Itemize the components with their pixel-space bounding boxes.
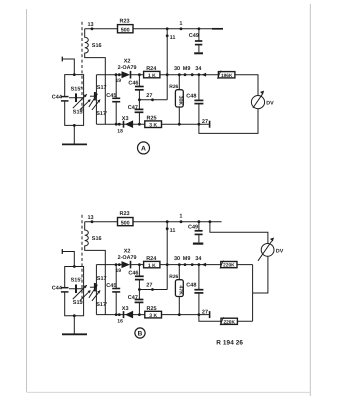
page border right [309,4,311,396]
svg-text:S17': S17' [96,302,108,308]
svg-text:DV: DV [266,100,274,106]
svg-text:X2: X2 [124,249,131,255]
svg-text:S15': S15' [71,87,83,93]
svg-text:S15: S15 [73,110,83,116]
svg-text:M9: M9 [183,66,191,72]
svg-text:C44: C44 [52,95,63,101]
resistor R26 (B) [178,265,180,315]
resistor R24 (B) [144,261,160,267]
capacitor C48 (A) [198,73,201,76]
variable capacitor S15/S15' (A) [69,97,84,99]
diode X2 2-OA79 (B) [122,261,131,268]
wire: detector rail (B) [96,264,252,266]
resistor R23 (B) [118,218,134,226]
wire: detector rail (A) [96,74,258,76]
svg-text:S17: S17 [97,276,107,282]
inductor S16 (A) [85,29,106,124]
svg-text:R25: R25 [147,306,157,312]
resistor R26 (A) [178,75,180,125]
svg-text:1 K: 1 K [148,73,156,79]
capacitor C45 (B) [115,265,117,315]
svg-text:C49: C49 [188,224,198,230]
node dots bottom rail (A) [115,123,118,126]
svg-text:C48: C48 [186,93,196,99]
svg-text:A: A [141,146,146,153]
page border left [26,9,28,392]
node: stub junction dot (A) [73,73,76,76]
svg-text:R26: R26 [169,84,178,90]
capacitor C49 (A) [198,27,201,30]
resistor 220K lower (B) [221,318,237,324]
wire: meter bottom jog (B) [253,256,268,293]
variable capacitor S17/S17' (A) [90,95,94,97]
svg-text:R24: R24 [146,256,157,262]
variable capacitor S15/S15' (B) [69,288,84,290]
svg-text:30: 30 [174,66,180,72]
dashed gang-coupling line (A) [81,22,83,112]
svg-text:34: 34 [195,66,202,72]
svg-text:R 194 26: R 194 26 [216,339,243,346]
variable capacitor S17/S17' (B) [90,286,94,288]
svg-text:27: 27 [146,93,152,99]
capacitor C44 (A) [61,96,69,98]
svg-text:S17': S17' [96,111,108,117]
ground (tank B) [73,314,76,317]
svg-text:S16: S16 [92,236,102,242]
svg-text:13: 13 [88,22,94,28]
capacitor C45 (A) [115,75,117,125]
node 19 dots (A) [115,73,118,76]
wire: node 27 link line (A) [139,99,167,101]
wire: top rail A [85,28,223,30]
svg-text:30K: 30K [177,96,183,106]
svg-text:196K: 196K [221,73,233,79]
svg-text:16: 16 [117,319,123,325]
capacitor C48 (B) [198,263,201,266]
nodes 30 M9 34 (A) [178,73,181,76]
svg-text:47K: 47K [177,285,183,295]
svg-text:34: 34 [195,256,202,262]
svg-text:2-OA79: 2-OA79 [118,65,137,71]
wire: tuned loop 1 (A) [65,75,84,126]
diode X3 (B) [123,311,125,318]
svg-text:X2: X2 [124,59,131,65]
svg-text:R25: R25 [147,115,157,121]
node 27 junction + terminal (B) [198,313,201,316]
capacitor C46 (A) [138,73,141,76]
svg-text:13: 13 [88,215,94,221]
svg-text:C46: C46 [128,270,138,276]
dashed gang-coupling line (B) [81,215,83,302]
page border bottom [27,391,311,393]
svg-text:S15': S15' [71,278,83,284]
wire: bottom rail (A) [96,123,208,125]
svg-text:S16: S16 [92,43,102,49]
svg-text:27: 27 [202,309,208,315]
svg-text:C45: C45 [106,93,116,99]
svg-text:220K: 220K [223,263,235,269]
svg-text:500: 500 [121,221,130,227]
svg-text:30: 30 [174,256,180,262]
svg-text:R26: R26 [169,274,178,280]
svg-text:X3: X3 [122,116,129,122]
svg-text:1 K: 1 K [148,263,156,269]
ground (C49 B) [193,243,203,245]
capacitor C46 (B) [138,263,141,266]
node 13 (B) [91,220,94,223]
svg-text:S15: S15 [73,300,83,306]
svg-text:C49: C49 [189,33,199,39]
svg-text:1: 1 [179,21,182,27]
wire: bottom rail (B) [96,314,208,316]
capacitor C44 (B) [61,287,69,289]
svg-text:R24: R24 [146,66,157,72]
wire: node 27 elbow to lower resistor (B) [199,315,253,322]
diode X2 2-OA79 (A) [122,71,131,78]
wire: node 11 vertical (B) [166,222,168,290]
wire: loop 2 left edge (A) [95,75,97,125]
resistor R24 (A) [144,71,160,77]
meter DV (A) [257,75,259,96]
meter DV (B) [261,244,274,257]
svg-text:11: 11 [170,35,176,41]
wire: node 27 link line (B) [139,289,167,291]
resistor 220K upper (B) [221,262,237,268]
arrowhead into node 34 (A) [202,73,207,77]
capacitor C47 (B) [138,290,140,315]
svg-text:C44: C44 [52,286,63,292]
svg-text:1: 1 [179,214,182,220]
input stub wire (B) [62,252,74,267]
node 27 junction + terminal (A) [198,123,201,126]
svg-text:27: 27 [202,119,208,125]
wire: top rail B [85,221,222,223]
resistor R25 (B) [145,311,162,318]
wire: node 11 vertical (A) [166,29,168,100]
node 1 (A) [180,27,183,30]
arrowhead into node 34 (B) [202,263,207,267]
svg-text:C47: C47 [128,295,138,301]
node: stub junction dot (B) [73,265,76,268]
svg-text:C46: C46 [128,81,138,87]
inductor S16 (B) [85,222,106,315]
wire: meter top branch (B) [209,220,212,223]
svg-text:3 K: 3 K [149,123,157,129]
node 13 (A) [91,27,94,30]
svg-text:18: 18 [117,128,123,134]
svg-text:27: 27 [146,283,152,289]
svg-text:DV: DV [276,248,284,254]
resistor R23 (A) [118,25,134,33]
resistor R25 (A) [145,121,162,128]
resistor 196K (A) [218,72,235,78]
ground (tank A) [73,124,76,127]
svg-text:X3: X3 [122,306,129,312]
capacitor C47 (A) [138,100,140,124]
svg-text:R23: R23 [120,18,130,24]
wire: top rail A thick end [212,28,223,30]
label circle A [138,142,150,154]
label circle B [135,328,145,338]
wire: tuned loop 1 (B) [65,267,84,316]
svg-text:C47: C47 [128,105,138,111]
capacitor C49 (B) [198,220,201,223]
svg-text:500: 500 [121,28,130,34]
svg-text:M9: M9 [183,256,191,262]
svg-text:11: 11 [170,228,176,234]
node dots bottom rail (B) [115,313,118,316]
nodes 30 M9 34 (B) [178,263,181,266]
wire: right vertical (B) [252,265,254,322]
svg-text:220K: 220K [223,319,235,325]
svg-text:S17: S17 [97,85,107,91]
ground (C49 A) [194,52,203,54]
svg-text:3 K: 3 K [149,313,157,319]
input stub wire (A) [62,59,74,75]
svg-text:2-OA79: 2-OA79 [118,255,137,261]
wire: loop 2 left edge (B) [95,265,97,315]
diode X3 (A) [123,121,125,128]
svg-text:C48: C48 [186,283,196,289]
svg-text:B: B [138,331,143,338]
node 19 dots (B) [115,263,118,266]
wire: meter bottom loop (A) [199,109,258,134]
svg-text:R23: R23 [120,211,130,217]
node 1 (B) [180,220,183,223]
svg-text:C45: C45 [106,283,116,289]
